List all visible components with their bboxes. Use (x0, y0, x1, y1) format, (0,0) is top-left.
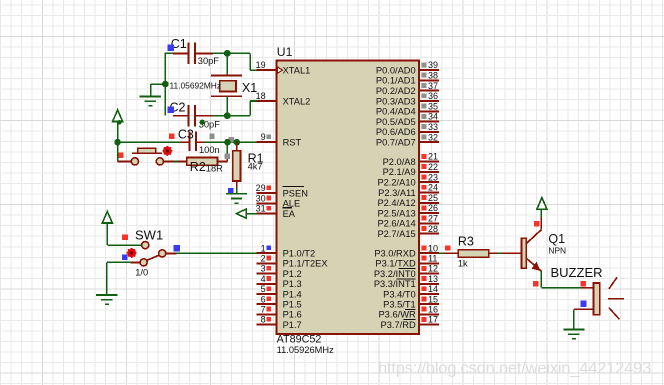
svg-text:15: 15 (428, 294, 438, 304)
svg-text:1k: 1k (458, 259, 468, 269)
svg-text:33: 33 (428, 122, 438, 132)
svg-text:29: 29 (256, 183, 266, 193)
svg-text:31: 31 (256, 204, 266, 214)
svg-text:1/0: 1/0 (135, 267, 148, 277)
pin 26 P2.5/A13 (377, 203, 438, 218)
svg-text:P2.4/A12: P2.4/A12 (377, 198, 415, 208)
wire SW1 to ground (107, 262, 140, 295)
state square SW1 bottom (122, 254, 128, 260)
crystal X1 (211, 75, 242, 96)
overline RD (under WR) (404, 319, 416, 321)
pin 32 P0.7/AD7 (376, 132, 439, 147)
buzzer BUZZER (574, 277, 624, 319)
stray junction dot (200, 120, 205, 125)
ground buzzer (563, 329, 584, 338)
wire node B to XTAL2 (227, 101, 257, 116)
overline WR (under T1) (405, 308, 416, 310)
pin 31 EA (256, 204, 296, 219)
pin 33 P0.6/AD6 (376, 122, 439, 137)
svg-text:11.05926MHz: 11.05926MHz (277, 345, 335, 355)
clock input marker XTAL1 (277, 67, 282, 74)
svg-text:P1.4: P1.4 (283, 289, 302, 299)
state square C2 (168, 106, 175, 113)
pin 22 P2.1/A9 (383, 162, 439, 177)
wire to ground 1 (151, 84, 166, 96)
svg-text:4k7: 4k7 (248, 161, 263, 171)
svg-text:P1.0/T2: P1.0/T2 (283, 249, 316, 259)
svg-text:P0.5/AD5: P0.5/AD5 (376, 117, 416, 127)
power terminal VCC Q1 (537, 198, 547, 210)
svg-text:P2.5/A13: P2.5/A13 (377, 208, 415, 218)
svg-text:P0.3/AD3: P0.3/AD3 (376, 96, 416, 106)
pin 16 P3.6/WR (378, 305, 438, 320)
capacitor C3 (181, 132, 205, 152)
wire buzzer to ground (573, 309, 575, 329)
svg-text:PSEN: PSEN (283, 188, 308, 198)
pin 17 P3.7/RD (381, 315, 439, 330)
svg-text:NPN: NPN (548, 246, 566, 256)
pin 5 P1.4 (257, 284, 302, 299)
svg-text:P1.1/T2EX: P1.1/T2EX (283, 259, 328, 269)
svg-text:EA: EA (283, 209, 296, 219)
svg-text:XTAL2: XTAL2 (283, 96, 311, 106)
state square buzzer top (581, 281, 586, 286)
capacitor C2 (173, 105, 213, 127)
svg-text:10: 10 (428, 243, 438, 253)
wire C1 left vertical (164, 53, 166, 115)
state square P3.0 net (445, 245, 450, 250)
svg-text:4: 4 (261, 274, 266, 284)
overline INT1 (under INT0) (397, 278, 416, 280)
pin 8 P1.7 (257, 315, 302, 330)
pin 12 P3.2/INT0 (374, 264, 439, 279)
pin 23 P2.2/A10 (377, 172, 438, 187)
pin 38 P0.1/AD1 (376, 71, 439, 86)
wire node A to XTAL1 (227, 53, 257, 70)
svg-text:P0.7/AD7: P0.7/AD7 (376, 138, 416, 148)
svg-text:21: 21 (428, 152, 438, 162)
svg-text:3: 3 (261, 264, 266, 274)
svg-text:P2.7/A15: P2.7/A15 (377, 229, 415, 239)
state square P1.0 net (174, 245, 180, 251)
wire C1 left (165, 52, 174, 54)
wire RST left segment (118, 141, 182, 143)
wire R2 riser (226, 142, 228, 161)
svg-text:P2.3/A11: P2.3/A11 (378, 188, 416, 198)
overline INT0 (under TXD) (399, 268, 416, 270)
state square SW1 top (122, 234, 128, 240)
marker SW1 (127, 248, 137, 258)
input terminal EA (236, 209, 257, 218)
svg-text:24: 24 (428, 183, 438, 193)
svg-text:P0.1/AD1: P0.1/AD1 (376, 76, 416, 86)
overline PSEN (282, 185, 304, 187)
pin 25 P2.4/A12 (377, 193, 438, 208)
svg-text:12: 12 (428, 264, 438, 274)
svg-text:P0.4/AD4: P0.4/AD4 (376, 107, 416, 117)
svg-text:8: 8 (261, 315, 266, 325)
svg-text:38: 38 (428, 71, 438, 81)
pin 19 XTAL1 (256, 60, 311, 75)
svg-text:28: 28 (428, 224, 438, 234)
svg-text:P1.7: P1.7 (283, 320, 302, 330)
svg-text:2: 2 (261, 254, 266, 264)
state square emitter (533, 281, 538, 286)
pin 11 P3.1/TXD (375, 254, 439, 269)
svg-text:P2.0/A8: P2.0/A8 (383, 157, 416, 167)
wire R1 to ground (236, 187, 238, 194)
pin 4 P1.3 (257, 274, 302, 289)
svg-text:19: 19 (256, 60, 266, 70)
svg-text:25: 25 (428, 193, 438, 203)
svg-text:https://blog.csdn.net/weixin_4: https://blog.csdn.net/weixin_44212493 (378, 359, 651, 378)
state square R2 riser (225, 154, 230, 159)
svg-text:9: 9 (261, 132, 266, 142)
pin 39 P0.0/AD0 (376, 60, 439, 75)
svg-text:16: 16 (428, 305, 438, 315)
svg-text:P1.6: P1.6 (283, 310, 302, 320)
marker button (162, 146, 172, 156)
pin 35 P0.4/AD4 (376, 101, 439, 116)
svg-text:BUZZER: BUZZER (551, 265, 603, 280)
wire RST right segment (204, 141, 257, 143)
wire emitter to buzzer (541, 271, 582, 288)
state square RST line (229, 137, 234, 142)
svg-text:P1.3: P1.3 (283, 279, 302, 289)
svg-text:13: 13 (428, 274, 438, 284)
pin 1 P1.0/T2 (257, 243, 316, 258)
svg-text:39: 39 (428, 60, 438, 70)
svg-text:P0.6/AD6: P0.6/AD6 (376, 127, 416, 137)
pin 10 P3.0/RXD (374, 243, 439, 258)
svg-text:ALE: ALE (283, 199, 301, 209)
pin 27 P2.6/A14 (377, 214, 438, 229)
pin 28 P2.7/A15 (377, 224, 438, 239)
junction ground branch (162, 81, 169, 88)
pin 29 PSEN (256, 183, 308, 198)
svg-text:7: 7 (261, 305, 266, 315)
wire C1 right (213, 52, 228, 54)
svg-text:37: 37 (428, 81, 438, 91)
svg-text:U1: U1 (277, 45, 293, 59)
pin 18 XTAL2 (256, 91, 311, 106)
pin 9 RST (257, 132, 302, 147)
svg-text:11: 11 (428, 254, 437, 264)
svg-text:32: 32 (428, 132, 438, 142)
pin 2 P1.1/T2EX (257, 254, 328, 269)
pin 34 P0.5/AD5 (376, 112, 439, 127)
pin 15 P3.5/T1 (383, 294, 439, 309)
svg-text:SW1: SW1 (135, 227, 163, 242)
svg-text:P1.5: P1.5 (283, 300, 302, 310)
state square button (118, 153, 123, 158)
resistor R2 (164, 158, 228, 166)
pin 24 P2.3/A11 (378, 183, 439, 198)
svg-text:P3.7/RD: P3.7/RD (381, 320, 416, 330)
wire button drop (117, 142, 119, 161)
svg-text:14: 14 (428, 284, 438, 294)
junction node A (224, 50, 231, 57)
wire VCC to collector (540, 209, 542, 217)
svg-text:11.05692MHz: 11.05692MHz (170, 81, 222, 91)
svg-text:Q1: Q1 (548, 232, 565, 246)
ground SW1 (96, 295, 117, 304)
wire crystal to node B (226, 96, 228, 116)
state square C1 (168, 44, 175, 51)
svg-text:P2.6/A14: P2.6/A14 (377, 219, 415, 229)
junction node B (224, 112, 231, 119)
state square R1 bottom (228, 188, 234, 194)
state square C3 (169, 133, 174, 138)
pin 7 P1.6 (257, 305, 302, 320)
svg-text:18R: 18R (206, 164, 223, 174)
svg-text:C3: C3 (178, 128, 194, 142)
overline EA (under ALE) (282, 207, 292, 209)
svg-text:R3: R3 (458, 234, 474, 248)
svg-text:R2: R2 (190, 160, 206, 174)
resistor R1 (233, 142, 241, 188)
pin 21 P2.0/A8 (383, 152, 439, 167)
svg-text:P3.5/T1: P3.5/T1 (383, 300, 416, 310)
svg-text:26: 26 (428, 203, 438, 213)
pin 14 P3.4/T0 (383, 284, 439, 299)
pin 30 ALE (256, 193, 301, 208)
state square C3 right (209, 134, 214, 139)
svg-text:30pF: 30pF (198, 56, 220, 66)
svg-text:P3.6/WR: P3.6/WR (378, 310, 415, 320)
ground R1 (226, 194, 247, 203)
svg-text:RST: RST (283, 137, 302, 147)
wire C2 right (213, 115, 228, 117)
svg-text:P3.4/T0: P3.4/T0 (383, 289, 416, 299)
svg-text:22: 22 (428, 162, 438, 172)
svg-text:P3.0/RXD: P3.0/RXD (374, 249, 416, 259)
svg-text:P1.2: P1.2 (283, 269, 302, 279)
wire SW1 to P1.0 (166, 252, 257, 254)
pin 3 P1.2 (257, 264, 302, 279)
capacitor C1 (173, 43, 213, 65)
resistor R3 (458, 250, 521, 258)
svg-text:23: 23 (428, 172, 438, 182)
state square collector (534, 221, 539, 226)
svg-text:P0.2/AD2: P0.2/AD2 (376, 86, 416, 96)
svg-text:6: 6 (261, 294, 266, 304)
svg-text:P2.2/A10: P2.2/A10 (377, 178, 415, 188)
svg-text:X1: X1 (242, 81, 257, 95)
junction R2 riser (224, 139, 231, 146)
pin 37 P0.2/AD2 (376, 81, 439, 96)
pin 36 P0.3/AD3 (376, 91, 439, 106)
power terminal VCC SW1 (102, 211, 112, 223)
wire P3.0 to R3 (439, 252, 458, 254)
junction RST left (114, 139, 121, 146)
pin 13 P3.3/INT1 (374, 274, 439, 289)
svg-text:P3.1/TXD: P3.1/TXD (375, 259, 416, 269)
wire node A to crystal (226, 53, 228, 75)
svg-text:P2.1/A9: P2.1/A9 (383, 167, 416, 177)
svg-text:17: 17 (428, 315, 438, 325)
state square buzzer bottom (581, 301, 587, 307)
svg-text:36: 36 (428, 91, 438, 101)
junction R1 top (234, 139, 241, 146)
svg-text:XTAL1: XTAL1 (283, 65, 311, 75)
power terminal VCC reset (113, 110, 123, 125)
svg-text:5: 5 (261, 284, 266, 294)
transistor Q1 (521, 217, 541, 272)
wire VCC to SW1 (107, 223, 141, 245)
svg-text:35: 35 (428, 101, 438, 111)
wire VCC to RST node (117, 122, 119, 143)
svg-text:1: 1 (261, 243, 266, 253)
pin 6 P1.5 (257, 294, 302, 309)
svg-text:AT89C52: AT89C52 (277, 334, 322, 346)
svg-text:P0.0/AD0: P0.0/AD0 (376, 65, 416, 75)
svg-text:P3.3/INT1: P3.3/INT1 (374, 279, 416, 289)
svg-text:34: 34 (428, 112, 438, 122)
button RESET (118, 148, 164, 165)
ground crystal (140, 96, 161, 105)
svg-text:P3.2/INT0: P3.2/INT0 (374, 269, 416, 279)
svg-text:100n: 100n (199, 145, 220, 155)
svg-text:30: 30 (256, 193, 266, 203)
IC U1 body (276, 60, 419, 334)
svg-text:27: 27 (428, 214, 438, 224)
switch SW1 (140, 242, 166, 267)
